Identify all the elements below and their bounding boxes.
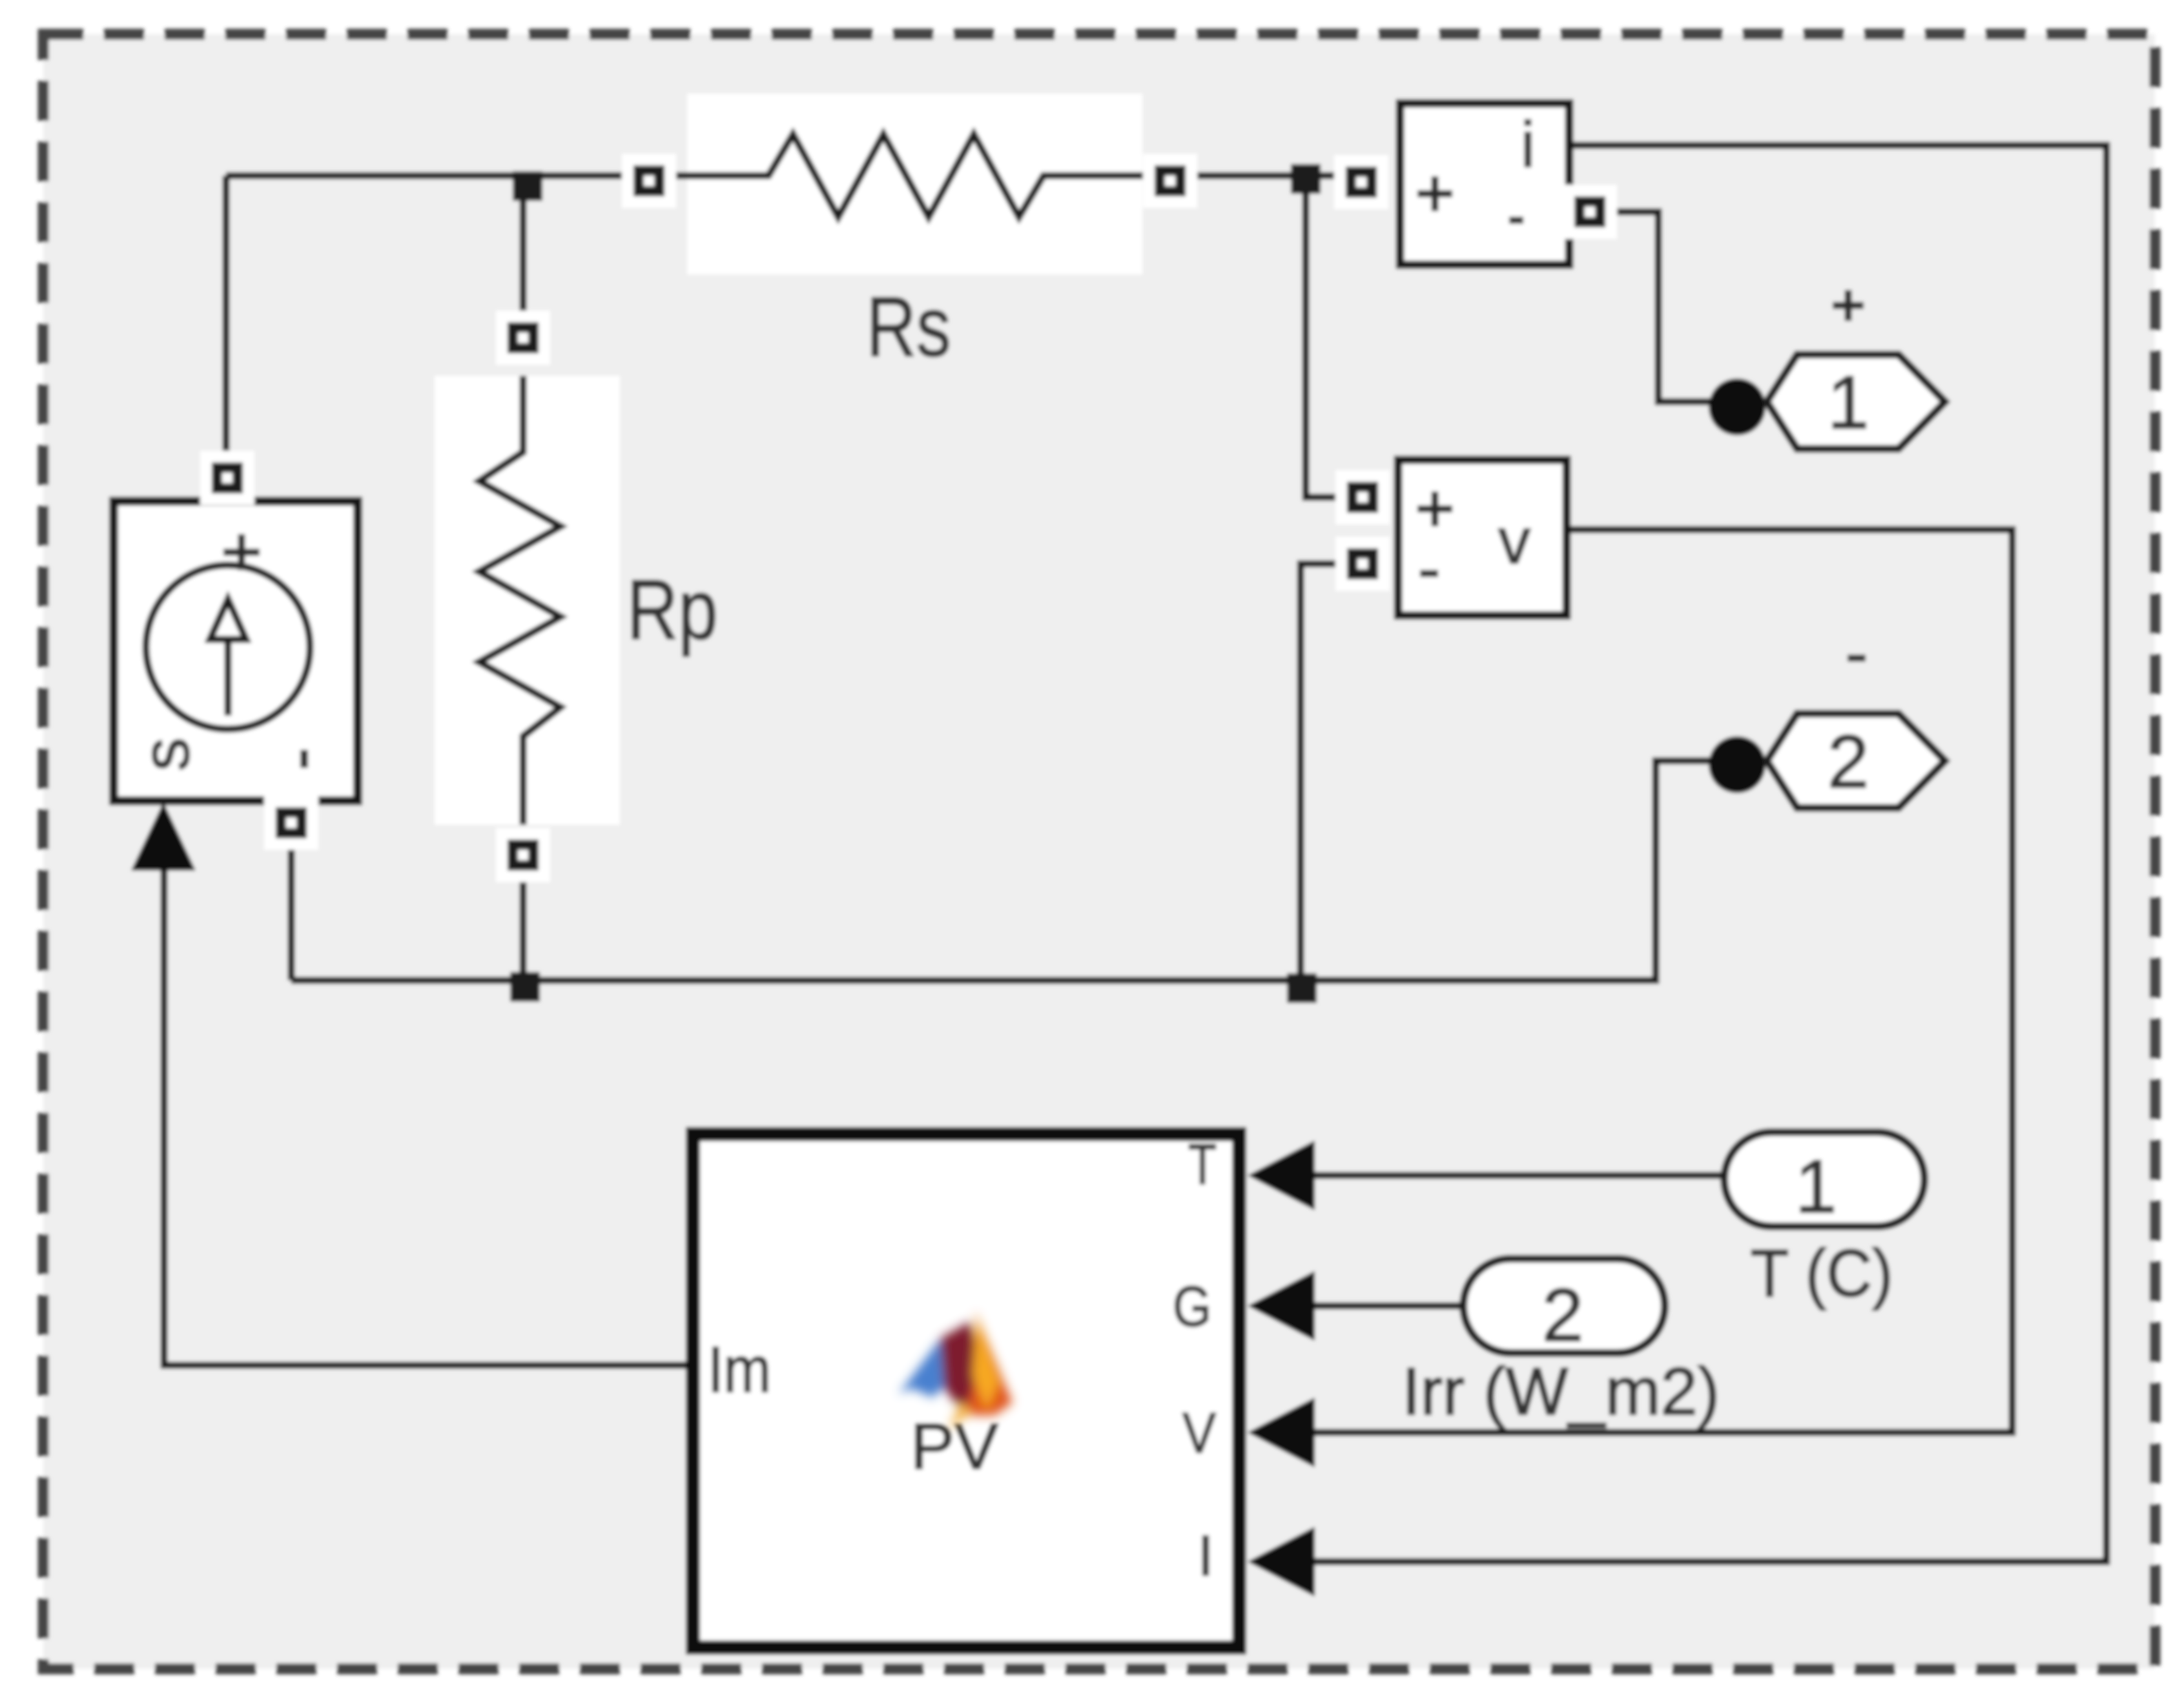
- wire: current sensor i output to PV input I: [1315, 145, 2107, 1562]
- input arrow G on PV: [1248, 1271, 1315, 1341]
- wire: Rs right to current sensor +: [1142, 172, 1361, 180]
- wire: current source - down to bottom bus: [288, 837, 295, 980]
- port right of Rs: [1143, 154, 1197, 208]
- svg-text:v: v: [1498, 505, 1530, 577]
- svg-text:i: i: [1521, 108, 1535, 181]
- port + of voltage sensor: [1335, 470, 1390, 524]
- resistor Rs zigzag: [687, 134, 1142, 217]
- port - of current source: [264, 796, 318, 850]
- wire: drop from node A to voltage sensor +: [1306, 176, 1350, 497]
- white icon background of resistor Rs: [687, 94, 1142, 274]
- label + above outport 1: [1833, 302, 1864, 309]
- svg-text:2: 2: [1828, 719, 1870, 803]
- junction node B-vsensor: [1287, 973, 1317, 1003]
- wire: inport 2 to PV input G: [1315, 1303, 1463, 1310]
- junction node B-Rp: [510, 972, 540, 1002]
- svg-text:1: 1: [1795, 1144, 1837, 1228]
- voltage sensor block: [1398, 460, 1567, 615]
- wire: PV output Im back to current source s input: [164, 840, 686, 1365]
- svg-text:Irr (W_m2): Irr (W_m2): [1402, 1354, 1720, 1429]
- wire: voltage sensor - down to bottom bus: [1301, 564, 1363, 980]
- signal input arrow into current source: [131, 802, 196, 871]
- resistor Rp zigzag: [479, 376, 561, 825]
- svg-text:Rs: Rs: [867, 279, 951, 374]
- svg-text:Rp: Rp: [627, 562, 718, 657]
- svg-text:s: s: [129, 738, 203, 771]
- junction node A-Rp: [513, 171, 542, 201]
- connection dot of outport 1: [1709, 378, 1766, 435]
- svg-text:2: 2: [1542, 1273, 1584, 1357]
- inport 1 rounded block: [1724, 1132, 1924, 1226]
- port left of Rs: [622, 154, 676, 208]
- port - of current sensor: [1563, 185, 1617, 239]
- outport 1 hexagon: [1767, 355, 1945, 449]
- port + of current source: [200, 451, 254, 505]
- wire: Rp bottom to bus: [520, 869, 527, 980]
- svg-text:T (C): T (C): [1751, 1236, 1893, 1311]
- wire: top node A (source + to Rs to current sensor +): [226, 172, 687, 180]
- current sensor block: [1400, 103, 1569, 265]
- port top of Rp: [496, 311, 550, 365]
- svg-text:T: T: [1188, 1132, 1217, 1196]
- current source S1 block: [114, 501, 358, 801]
- input arrow V on PV: [1248, 1398, 1315, 1467]
- svg-text:G: G: [1173, 1274, 1211, 1338]
- wire: drop from node A to Rp top: [520, 176, 527, 326]
- wire: voltage sensor v output to PV input V: [1315, 530, 2012, 1432]
- connection dot of outport 2: [1709, 736, 1766, 793]
- wire: current sensor - to port 1 dot: [1590, 212, 1713, 402]
- wire: inport 1 to PV input T: [1315, 1172, 1724, 1179]
- PV MATLAB-function block: [693, 1132, 1239, 1648]
- svg-text:1: 1: [1828, 360, 1870, 444]
- wire: bottom bus node B to port 2 dot: [291, 761, 1713, 980]
- outport 2 hexagon: [1767, 714, 1945, 808]
- svg-text:Im: Im: [708, 1334, 771, 1406]
- svg-text:I: I: [1198, 1524, 1213, 1587]
- MATLAB logo: [899, 1311, 1013, 1431]
- input arrow T on PV: [1248, 1141, 1315, 1210]
- port + of current sensor: [1334, 155, 1388, 209]
- junction node A-vsensor: [1291, 164, 1321, 194]
- input arrow I on PV: [1248, 1527, 1315, 1596]
- wire: left vertical to current source +: [223, 176, 230, 465]
- port bottom of Rp: [496, 828, 550, 882]
- label - above outport 2: [1848, 655, 1866, 662]
- inport 2 rounded block: [1463, 1259, 1665, 1353]
- port - of voltage sensor: [1335, 537, 1390, 591]
- svg-text:V: V: [1182, 1401, 1216, 1465]
- white icon background of resistor Rp: [435, 376, 620, 825]
